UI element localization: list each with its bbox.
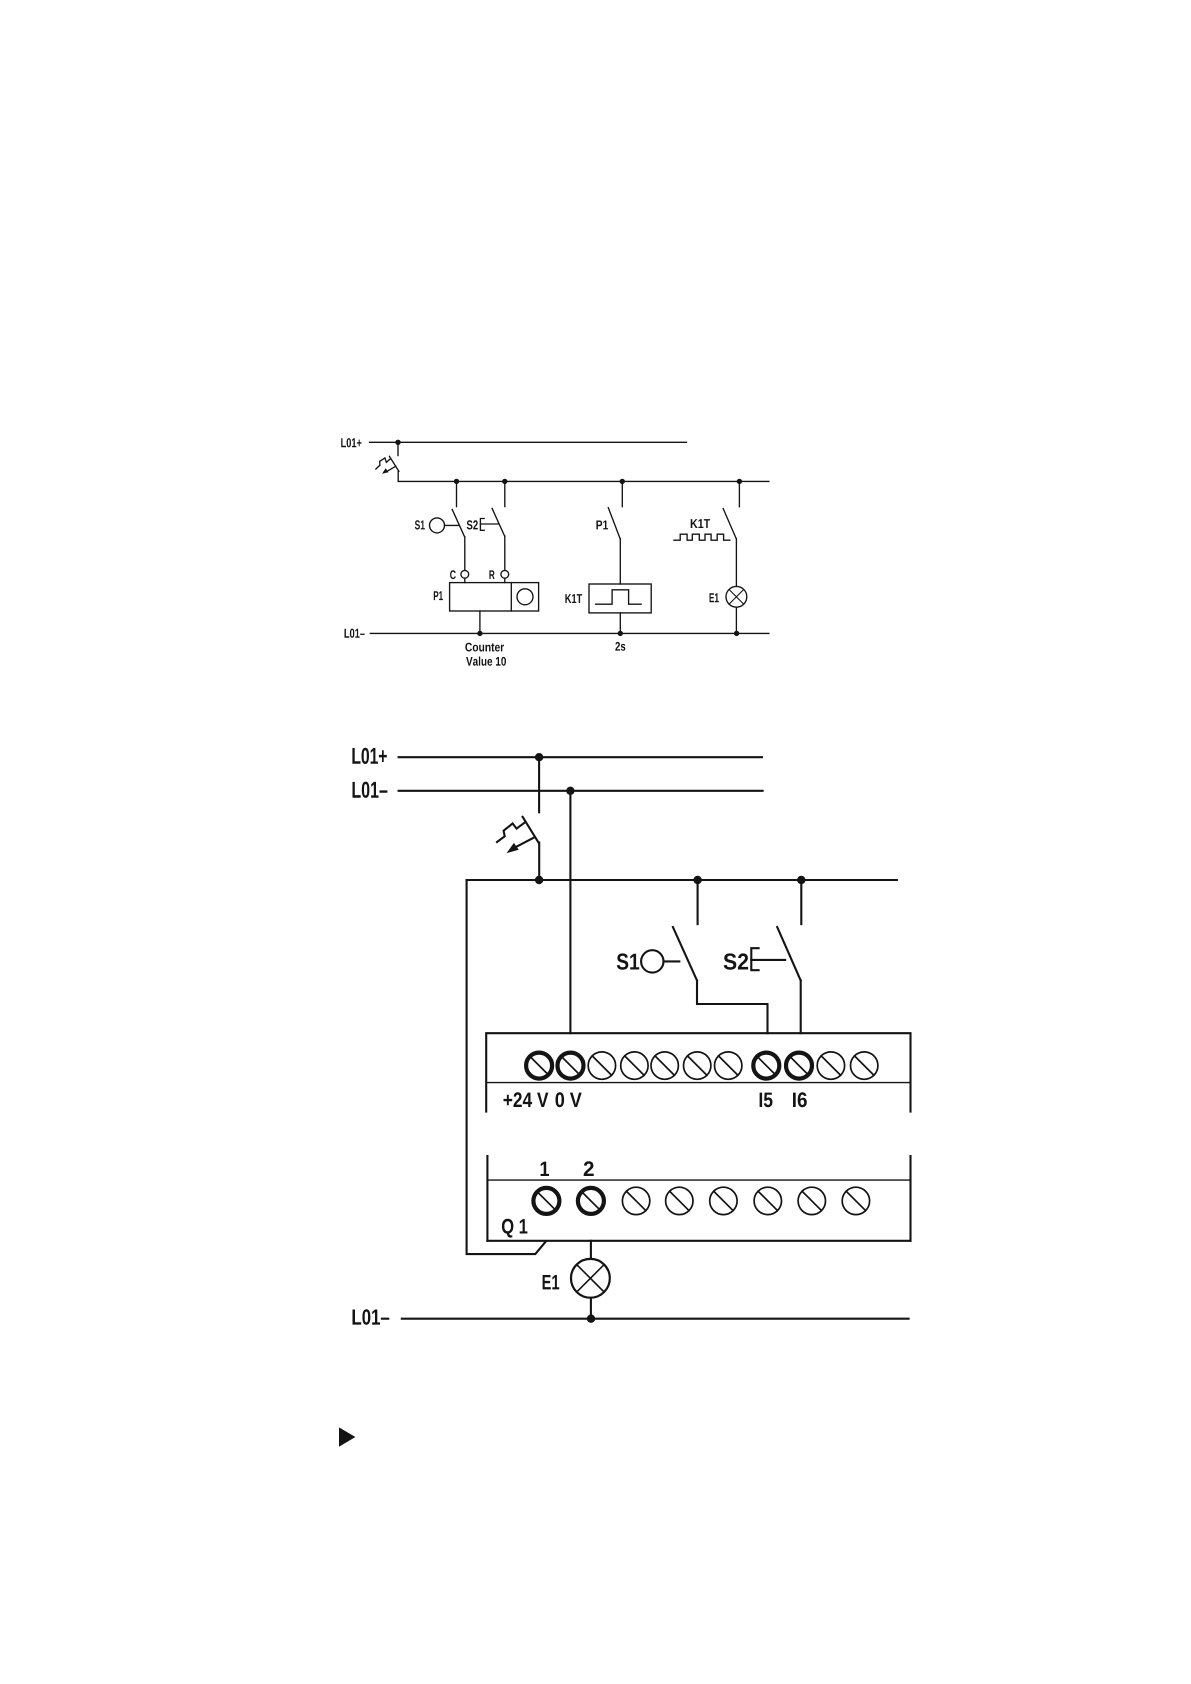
terminal spare (screw) (715, 1052, 742, 1079)
switch S2 actuator bracket (480, 519, 484, 531)
node: junction dot above S1 (454, 479, 459, 484)
wire: left feed down and around to output terminal 1 (467, 880, 546, 1254)
pin label I5 (760, 1093, 773, 1108)
wire: stub to S2 (800, 880, 802, 924)
label K1T (coil) (565, 594, 582, 603)
net label L01+ (wiring diagram) (352, 748, 386, 764)
wire: breaker to device rail (538, 843, 540, 881)
terminal C circle of counter P1 (461, 570, 469, 578)
wire: 0V feed from L01- down to module (569, 791, 571, 1033)
wire: L01+ supply rail (370, 441, 687, 443)
label S2 (467, 520, 478, 529)
circuit breaker F1 trip arrow head (507, 843, 519, 853)
label K1T (contact) (691, 519, 710, 528)
net label L01- (bottom rail) (353, 1309, 390, 1325)
wire: S2 to terminal I6 (800, 981, 802, 1034)
node: junction dot above K1T contact (737, 479, 742, 484)
terminal +24V (screw) (526, 1053, 552, 1079)
module output section right wall (909, 1156, 911, 1241)
net label L01+ (top diagram) (341, 438, 361, 447)
terminal I3 (screw) (651, 1052, 678, 1079)
wire: output terminal 2 to lamp E1 (590, 1241, 592, 1259)
wire: stub from L01+ rail into breaker (397, 442, 399, 455)
circuit breaker F1 blade (523, 817, 539, 843)
wire: S1 to terminal I5 (697, 981, 768, 1034)
node: junction dot on L01- rail (566, 787, 574, 795)
counter P1 dial circle (517, 589, 533, 605)
wire: C terminal into counter box (464, 578, 466, 582)
module output terminal strip divider (487, 1179, 910, 1181)
output terminal 6 (screw) (754, 1187, 781, 1214)
node: junction dot under lamp (587, 1315, 595, 1323)
switch S2 blade (NO) (777, 927, 801, 981)
node: junction dot above S2 (797, 876, 805, 884)
label S1 (617, 953, 639, 969)
wire: bottom L01- rail (402, 1318, 909, 1320)
wire: S1 contact to C terminal (464, 537, 466, 571)
terminal I2 (screw) (621, 1052, 648, 1079)
pushbutton S1 actuator link (445, 524, 460, 526)
node: junction dot breaker/device rail (535, 876, 543, 884)
wire: stub to P1 contact (621, 481, 623, 506)
lamp E1 circle (571, 1259, 610, 1298)
terminal I4 (screw) (684, 1052, 711, 1079)
switch S2 actuator link (751, 959, 785, 961)
label E1 (543, 1275, 560, 1289)
value label 2s (615, 642, 625, 651)
wire: sub rail after breaker (398, 480, 769, 482)
value label Counter (465, 643, 504, 652)
output terminal 1 (screw, bold) (533, 1188, 559, 1214)
label P1 (counter) (434, 591, 443, 600)
pin label 1 (541, 1162, 549, 1176)
easy relay module: input section outline (486, 1033, 910, 1111)
node: junction dot above P1 contact (620, 479, 625, 484)
output terminal 4 (screw) (666, 1187, 693, 1214)
pushbutton S1 actuator link (664, 960, 680, 962)
terminal 0V (screw) (558, 1053, 584, 1079)
timing relay K1T box (589, 584, 651, 613)
node: junction dot above S1 (693, 876, 701, 884)
wire: lamp E1 to L01- rail (590, 1298, 592, 1319)
circuit breaker F1 (trip symbol, top diagram) : flag (376, 458, 391, 469)
module input terminal strip divider (486, 1082, 910, 1084)
wire: R terminal into counter box (504, 578, 506, 582)
terminal I8 (screw) (851, 1052, 878, 1079)
wire: S2 contact to R terminal (504, 536, 506, 570)
terminal I1 (screw) (588, 1052, 615, 1079)
module output bottom edge (487, 1240, 910, 1242)
switch S2 actuator link (480, 523, 498, 525)
wire: timer box to L01- rail (619, 613, 621, 634)
counter relay P1 box (450, 583, 539, 611)
wire: L01- rail (399, 790, 763, 792)
terminal I7 (screw) (817, 1052, 844, 1079)
wire: device supply rail (467, 879, 897, 881)
wire: stub from L01+ into breaker (538, 757, 540, 812)
contact K1T blade (NO) (723, 509, 736, 539)
wire: K1T contact to lamp E1 (735, 539, 737, 587)
lamp E1 circle (726, 586, 747, 607)
list-bullet triangle marker (339, 1427, 355, 1446)
output terminal 8 (screw) (842, 1187, 869, 1214)
pushbutton S1 blade (NO) (673, 927, 697, 981)
label Q 1 (502, 1219, 528, 1238)
circuit breaker F1 flag (wiring diagram) (497, 822, 525, 842)
node: junction dot under lamp (734, 631, 739, 636)
pin label I6 (793, 1092, 807, 1107)
wire: stub to S1 contact (456, 481, 458, 506)
terminal I6 (screw, bold) (786, 1053, 812, 1079)
wire: L01+ rail (399, 756, 762, 758)
label S1 (415, 520, 425, 529)
pushbutton S1 actuator head (430, 518, 445, 533)
output terminal 2 (screw, bold) (578, 1188, 604, 1214)
timer K1T pulse symbol (596, 590, 641, 604)
wire: stub to K1T contact (738, 481, 740, 506)
node: junction dot above S2 (502, 479, 507, 484)
value label Value 10 (466, 657, 506, 666)
wire: lamp to L01- rail (735, 607, 737, 633)
circuit breaker F1 trip arrow head (382, 468, 389, 474)
pin label 2 (584, 1161, 594, 1176)
pin label C (450, 570, 456, 579)
node: junction dot under timer (618, 631, 623, 636)
node: junction dot under counter (477, 631, 482, 636)
net label L01- (top diagram) (345, 629, 365, 638)
wire: stub to S1 (697, 880, 699, 924)
circuit breaker F1 trip arrow shaft (515, 838, 534, 848)
switch S2 contact blade (NO) (492, 508, 505, 536)
terminal I5 (screw, bold) (753, 1053, 779, 1079)
output terminal 3 (screw) (622, 1187, 649, 1214)
node: junction dot on L01+ rail (535, 753, 543, 761)
wire: stub to S2 contact (504, 481, 506, 506)
switch S2 actuator bracket (751, 948, 758, 970)
lamp E1 cross (729, 590, 744, 605)
label S2 (724, 953, 749, 969)
circuit breaker F1 blade (389, 456, 399, 471)
pushbutton S1 contact blade (NO) (452, 509, 464, 536)
label E1 (710, 593, 719, 602)
terminal R circle of counter P1 (501, 570, 509, 578)
pin label 0 V (556, 1092, 582, 1107)
wire: breaker output down to sub rail (397, 471, 399, 481)
net label L01- (wiring diagram) (353, 782, 388, 798)
pushbutton S1 actuator head (641, 950, 663, 972)
K1T clock square-wave symbol (674, 534, 730, 540)
lamp E1 cross (577, 1265, 604, 1292)
contact P1 blade (NO) (608, 508, 620, 539)
output terminal 5 (screw) (710, 1187, 737, 1214)
pin label +24 V (504, 1092, 549, 1107)
module output section left wall (486, 1156, 488, 1241)
output terminal 7 (screw) (798, 1187, 825, 1214)
label P1 (contact) (596, 521, 608, 530)
counter P1 box divider (510, 583, 512, 611)
circuit breaker F1 trip arrow shaft (387, 466, 396, 471)
wire: counter box to L01- rail (479, 611, 481, 633)
wire: P1 contact down to timer K1T (619, 539, 621, 584)
pin label R (489, 570, 494, 579)
wire: L01- return rail (370, 632, 769, 634)
node: junction dot on L01+ rail (395, 440, 400, 445)
